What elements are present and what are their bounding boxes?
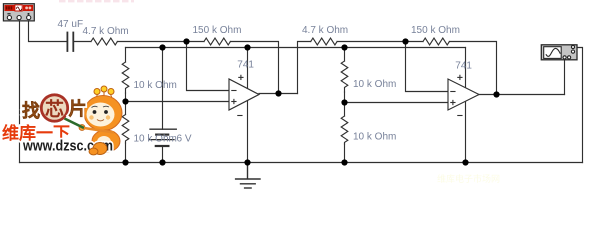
wire R4.7k to R150k stage1: [117, 41, 204, 43]
node op2 output: [493, 91, 499, 97]
wire capacitor to R 4.7k stage1: [74, 41, 91, 43]
wire op2 V- supply pin to rail: [465, 101, 467, 163]
op-amp U2 741 triangle: [448, 79, 479, 110]
svg-text:150 k Ohm: 150 k Ohm: [193, 25, 242, 36]
node rail battery top: [159, 44, 165, 50]
node ground rail op2 V-: [462, 159, 468, 165]
svg-text:4.7 k Ohm: 4.7 k Ohm: [302, 25, 348, 36]
svg-text:741: 741: [237, 59, 254, 70]
op-amp U1 plus input mark: [232, 99, 236, 103]
wire divider1 mid lead: [125, 93, 127, 115]
op-amp U1 741 triangle: [229, 79, 259, 110]
watermark mascot eyes and mouth: [93, 110, 97, 114]
op-amp U2 V+ mark: [458, 75, 462, 79]
wire op1 V- supply pin to rail: [247, 100, 249, 162]
op-amp U2 minus input mark: [451, 91, 455, 93]
watermark mascot crown: [94, 86, 114, 98]
node top line at R150k1 left / op1 inverting tap: [183, 38, 189, 44]
wire 150k to op1 output node (corner down): [230, 42, 278, 94]
wire 150k2 to op2 output node (corner down): [449, 42, 496, 95]
wire stage2 input riser: [298, 42, 311, 94]
resistor R 10 k Ohm divider2 top: [341, 61, 348, 92]
battery V1 6 V: [150, 129, 177, 146]
svg-text:741: 741: [455, 60, 472, 71]
wire op2 output to scope: [479, 94, 565, 96]
wire noninverting input op2 from divider2 midpoint: [345, 102, 449, 104]
node divider2 midpoint: [341, 99, 347, 105]
wire inverting input op2 from node: [406, 42, 449, 92]
resistor R 4.7 k Ohm stage 2: [311, 38, 337, 45]
svg-text:47 uF: 47 uF: [58, 19, 84, 30]
op-amp U1 V+ mark: [239, 75, 243, 79]
node op1 output: [275, 90, 281, 96]
wire battery bottom lead to rail: [162, 146, 164, 163]
svg-text:维库电子市场网: 维库电子市场网: [437, 173, 500, 184]
wire scope right terminal to rail riser: [575, 48, 583, 163]
wire ground rail (bottom): [20, 162, 583, 164]
wire divider2 mid lead: [344, 92, 346, 116]
node rail op1 V+: [244, 44, 250, 50]
oscilloscope XSC1: [541, 45, 577, 60]
capacitor C1 47 uF: [67, 33, 73, 52]
wire divider2 top lead: [344, 48, 346, 62]
wire noninverting input op1 from divider1 midpoint: [126, 101, 230, 103]
watermark ring logo with chip glyph (xin): [41, 95, 68, 122]
node ground rail divider2: [341, 159, 347, 165]
svg-text:10 k Ohm: 10 k Ohm: [353, 79, 396, 90]
resistor R 10 k Ohm divider2 bottom: [341, 116, 348, 144]
svg-text:10 k Ohm: 10 k Ohm: [134, 80, 177, 91]
wire inverting input op1 from node at top line: [187, 42, 230, 91]
resistor R 150 k Ohm stage 1 (feedback): [204, 38, 230, 45]
node top line stage2 at op2 inverting tap: [402, 38, 408, 44]
resistor R 150 k Ohm stage 2 (feedback): [423, 38, 449, 45]
wire gen middle terminal to ground rail (left vertical): [19, 21, 21, 163]
svg-text:6 V: 6 V: [177, 134, 192, 145]
wire op1 output to stage2: [259, 93, 298, 95]
resistor R 4.7 k Ohm stage 1: [91, 38, 117, 45]
node ground rail divider1: [122, 159, 128, 165]
wire op2 V+ supply pin: [465, 48, 467, 88]
node ground rail ground symbol: [244, 159, 250, 165]
op-amp U2 V- mark: [458, 115, 462, 117]
op-amp U1 minus input mark: [232, 90, 236, 92]
wire divider1 top lead: [125, 48, 127, 63]
watermark magnifier handle (green stick): [65, 119, 85, 129]
faint pink watermark ghost top edge: [59, 0, 134, 2]
wire battery top lead from rail dot: [162, 48, 164, 130]
svg-text:150 k Ohm: 150 k Ohm: [411, 25, 460, 36]
op-amp U2 plus input mark: [451, 100, 455, 104]
watermark mascot hand: [79, 125, 85, 131]
svg-text:10 k Ohm: 10 k Ohm: [134, 134, 177, 145]
node divider1 midpoint: [122, 98, 128, 104]
wire supply rail +V (y=47.5): [126, 47, 466, 49]
wire gen right terminal to capacitor: [29, 21, 67, 42]
ground symbol: [236, 163, 260, 189]
node rail divider2: [341, 44, 347, 50]
resistor R 10 k Ohm divider1 bottom: [122, 115, 129, 144]
resistor R 10 k Ohm divider1 top: [122, 62, 129, 93]
watermark mascot head: [84, 96, 122, 131]
svg-text:片: 片: [69, 98, 87, 119]
wire R4.7k2 to R150k2: [337, 41, 423, 43]
function generator XFG1: [3, 4, 34, 21]
watermark dzsc.com: [2, 86, 122, 155]
wire divider2 bottom lead to rail: [344, 144, 346, 163]
svg-text:芯: 芯: [45, 98, 64, 121]
svg-text:4.7 k Ohm: 4.7 k Ohm: [83, 26, 129, 37]
watermark mascot boot overlapping text: [89, 143, 107, 155]
svg-text:找: 找: [22, 100, 40, 121]
svg-text:10 k Ohm: 10 k Ohm: [353, 132, 396, 143]
watermark mascot body: [92, 130, 120, 152]
op-amp U1 V- mark: [238, 115, 242, 117]
wire divider1 bottom lead to rail: [125, 143, 127, 163]
node ground rail battery: [159, 159, 165, 165]
wire op1 V+ supply pin: [247, 48, 249, 89]
wire scope bottom terminal riser: [564, 59, 566, 94]
